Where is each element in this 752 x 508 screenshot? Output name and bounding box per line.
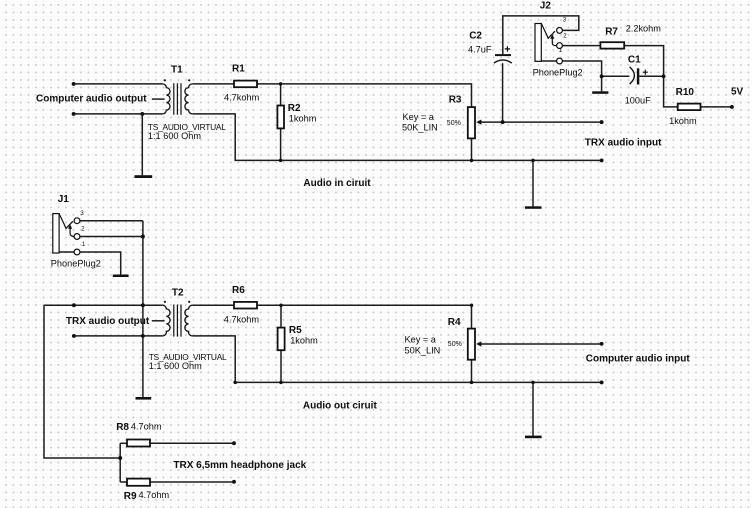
svg-text:Computer audio output: Computer audio output [36,94,147,105]
svg-text:R3: R3 [449,95,462,106]
svg-text:Audio out ciruit: Audio out ciruit [303,401,378,412]
svg-text:50K_LIN: 50K_LIN [405,346,441,356]
svg-text:4.7ohm: 4.7ohm [139,490,170,500]
svg-text:R9: R9 [124,491,137,502]
svg-text:50K_LIN: 50K_LIN [402,123,438,133]
svg-text:Key = a: Key = a [405,335,437,345]
svg-text:C2: C2 [469,30,482,41]
svg-text:1:1 600 Ohm: 1:1 600 Ohm [148,131,201,141]
svg-text:100uF: 100uF [625,96,651,106]
svg-text:J2: J2 [540,1,552,12]
svg-text:50%: 50% [448,341,462,348]
svg-text:J1: J1 [58,194,70,205]
svg-text:R6: R6 [232,285,245,296]
svg-text:PhonePlug2: PhonePlug2 [533,67,583,77]
svg-text:1:1 600 Ohm: 1:1 600 Ohm [149,361,202,371]
svg-text:T2: T2 [172,288,184,299]
svg-text:PhonePlug2: PhonePlug2 [51,258,101,268]
svg-text:1kohm: 1kohm [290,336,318,346]
svg-text:5V: 5V [731,86,744,97]
svg-text:R2: R2 [288,103,301,114]
svg-text:Computer audio input: Computer audio input [586,353,691,364]
svg-text:1kohm: 1kohm [669,116,697,126]
svg-text:50%: 50% [447,120,461,127]
svg-text:R10: R10 [676,87,695,98]
svg-text:R4: R4 [448,317,461,328]
svg-text:TRX audio output: TRX audio output [66,316,150,327]
svg-text:4.7uF: 4.7uF [468,44,492,54]
svg-text:4.7kohm: 4.7kohm [224,93,260,103]
svg-text:R1: R1 [232,64,245,75]
svg-text:R5: R5 [289,325,302,336]
svg-text:4.7ohm: 4.7ohm [131,422,162,432]
svg-text:TRX 6,5mm headphone jack: TRX 6,5mm headphone jack [173,460,306,471]
svg-text:R8: R8 [116,422,129,433]
svg-text:1kohm: 1kohm [289,114,317,124]
svg-text:TRX audio input: TRX audio input [585,137,662,148]
svg-text:4.7kohm: 4.7kohm [224,315,260,325]
svg-text:T1: T1 [171,65,183,76]
svg-text:2.2kohm: 2.2kohm [626,23,662,33]
svg-text:R7: R7 [605,27,618,38]
svg-text:C1: C1 [628,55,641,66]
svg-text:Key = a: Key = a [403,112,435,122]
svg-text:Audio in ciruit: Audio in ciruit [303,178,371,189]
